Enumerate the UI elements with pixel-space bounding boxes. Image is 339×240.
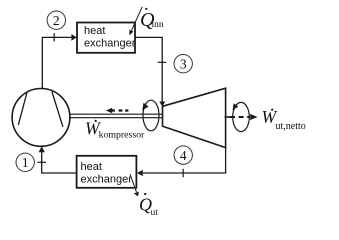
svg-text:ut,netto: ut,netto xyxy=(276,121,306,132)
svg-text:inn: inn xyxy=(152,20,164,30)
svg-text:ut: ut xyxy=(151,208,159,218)
svg-text:exchanger: exchanger xyxy=(81,174,133,186)
svg-text:kompressor: kompressor xyxy=(99,130,145,141)
svg-text:1: 1 xyxy=(22,155,29,170)
svg-text:exchanger: exchanger xyxy=(84,37,136,49)
svg-text:heat: heat xyxy=(81,161,102,173)
svg-text:4: 4 xyxy=(180,148,187,163)
svg-text:2: 2 xyxy=(53,13,60,28)
svg-text:3: 3 xyxy=(180,56,187,71)
svg-text:heat: heat xyxy=(84,25,105,37)
